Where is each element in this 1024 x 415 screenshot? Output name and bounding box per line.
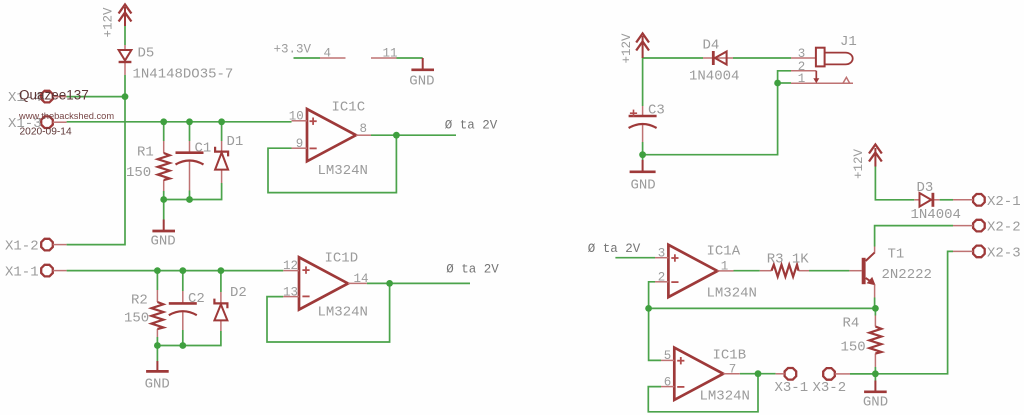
svg-text:1N4004: 1N4004	[689, 69, 739, 85]
svg-text:9: 9	[296, 137, 304, 151]
junction node C2 top	[179, 267, 186, 274]
svg-text:D5: D5	[138, 45, 155, 61]
svg-text:Ø ta 2V: Ø ta 2V	[446, 263, 499, 277]
junction node R1 top	[160, 118, 167, 125]
junction node J1 pin1/2	[774, 80, 781, 87]
wire pin 11 to GND	[397, 57, 423, 59]
wire IC1C feedback pin9	[268, 135, 396, 192]
svg-text:LM324N: LM324N	[318, 305, 368, 321]
resistor R1	[126, 141, 170, 191]
svg-text:3: 3	[658, 246, 666, 260]
svg-text:GND: GND	[631, 178, 656, 194]
svg-text:www.thebackshed.com: www.thebackshed.com	[18, 111, 114, 121]
wire stub to GND under R4	[874, 374, 876, 381]
svg-text:IC1B: IC1B	[713, 347, 747, 363]
svg-text:R2: R2	[131, 293, 148, 309]
junction node D2 top	[218, 267, 225, 274]
svg-text:LM324N: LM324N	[318, 163, 368, 179]
zener diode D2	[214, 285, 246, 331]
svg-text:C1: C1	[195, 141, 212, 157]
svg-text:R4: R4	[843, 316, 860, 332]
svg-text:IC1A: IC1A	[707, 243, 741, 259]
svg-text:12: 12	[283, 259, 298, 273]
connector pin X2-3	[953, 245, 1021, 261]
svg-text:+12V: +12V	[102, 7, 116, 38]
wire R3 to T1 base	[809, 270, 849, 272]
junction node D5/X1-4/X1-2	[122, 93, 129, 100]
net label 0 to 2V (IC1D out)	[446, 263, 499, 277]
connector J1 DC jack	[791, 34, 857, 86]
op-amp IC1C	[289, 100, 371, 180]
svg-text:IC1C: IC1C	[332, 100, 366, 116]
wire X1-1 to IC1D pin 12	[67, 270, 284, 272]
wire +12V arrow to D3	[875, 167, 914, 200]
svg-text:6: 6	[664, 375, 672, 389]
wire X3-2 to R4 node	[850, 373, 875, 375]
capacitor C2	[169, 291, 205, 330]
wire stub D2 top	[220, 271, 222, 292]
svg-text:13: 13	[283, 285, 298, 299]
wire X2-3 down to emitter rail	[875, 251, 953, 373]
junction node C1 bottom	[186, 196, 193, 203]
svg-text:D3: D3	[917, 180, 934, 196]
wire rail to IC1B pin 5	[649, 308, 661, 360]
wire IC1A out to R3	[734, 270, 760, 272]
wire X2-2 to T1 collector	[875, 226, 953, 247]
ground under R2	[145, 361, 170, 393]
op-amp IC1B	[661, 347, 750, 404]
svg-text:X3-1: X3-1	[775, 380, 809, 396]
wire stub R1 top	[163, 122, 165, 141]
wire IC1B feedback pin6	[648, 374, 758, 412]
wire bottom rail R1/C1/D1	[164, 183, 222, 200]
diode D5	[119, 45, 234, 83]
svg-text:GND: GND	[145, 377, 170, 393]
wire D4 cathode to J1 pin 3	[733, 57, 791, 59]
wire IC1A pin2 to feedback rail	[649, 282, 655, 309]
supply +12V arrow (right)	[852, 145, 882, 180]
junction node C3 bottom	[639, 151, 646, 158]
power pin 4 +3.3V	[274, 43, 346, 61]
svg-text:10: 10	[289, 110, 304, 124]
wire +3.3V to pin 4	[294, 57, 321, 59]
svg-text:150: 150	[126, 165, 151, 181]
wire stub C2 top	[182, 271, 184, 291]
junction node rail right / emitter	[872, 305, 879, 312]
svg-text:2: 2	[658, 271, 666, 285]
svg-text:GND: GND	[863, 395, 888, 411]
wire +12V to D4 and C3	[643, 58, 703, 106]
junction node IC1B out	[755, 370, 762, 377]
connector pin X2-1	[953, 194, 1021, 210]
ground at pin 11	[409, 58, 434, 90]
junction node C1 top	[186, 118, 193, 125]
svg-text:X2-2: X2-2	[987, 220, 1021, 236]
svg-text:7: 7	[729, 362, 737, 376]
svg-text:X3-2: X3-2	[813, 380, 847, 396]
svg-text:D4: D4	[703, 38, 720, 54]
resistor R3	[760, 252, 810, 277]
connector pin X3-2	[813, 368, 851, 396]
resistor R2	[124, 290, 163, 337]
watermark text www.thebackshed.com	[18, 111, 114, 121]
wire stub R2 top	[156, 271, 158, 290]
svg-text:IC1D: IC1D	[325, 250, 359, 266]
svg-text:Ø ta 2V: Ø ta 2V	[588, 242, 641, 256]
diode D3	[911, 180, 961, 223]
junction node D1 top	[218, 118, 225, 125]
power pin 11	[371, 46, 398, 60]
wire D5 cathode down to X1-2	[67, 75, 125, 245]
svg-text:1N4004: 1N4004	[911, 207, 961, 223]
junction node IC1C out	[393, 132, 400, 139]
connector pin X3-1	[775, 368, 809, 396]
wire feedback rail	[649, 307, 876, 309]
junction node R1 bottom	[160, 196, 167, 203]
svg-text:R3 1K: R3 1K	[767, 252, 810, 268]
connector pin X1-1	[5, 264, 67, 280]
ground under C3	[630, 160, 656, 194]
svg-text:11: 11	[383, 46, 398, 60]
wire IC1B output to X3-1	[740, 373, 776, 375]
svg-text:X1-1: X1-1	[5, 264, 39, 280]
svg-text:T1: T1	[888, 247, 905, 263]
junction node IC1D out	[386, 280, 393, 287]
wire J1 pin1 stub	[778, 82, 791, 84]
wire IC1D feedback pin13	[267, 283, 390, 342]
wire X1-4 to +12V/D5 node	[67, 96, 125, 98]
svg-text:1: 1	[721, 260, 729, 274]
wire stub C1 top	[189, 122, 191, 141]
connector pin X1-4	[8, 90, 67, 106]
svg-text:GND: GND	[151, 234, 176, 250]
svg-text:+3.3V: +3.3V	[274, 43, 312, 57]
supply +12V arrow (left)	[102, 5, 132, 38]
svg-text:X2-1: X2-1	[987, 194, 1021, 210]
wire stub D1 top	[221, 122, 223, 141]
wire R4 bottom stub	[874, 367, 876, 374]
svg-text:150: 150	[841, 340, 866, 356]
watermark text Quazee137	[19, 88, 89, 103]
svg-text:LM324N: LM324N	[707, 285, 757, 301]
wire C3 bottom	[642, 142, 644, 160]
svg-text:D2: D2	[230, 285, 247, 301]
svg-text:5: 5	[664, 349, 672, 363]
svg-text:2020-09-14: 2020-09-14	[20, 127, 72, 138]
ground under R4	[863, 381, 888, 411]
transistor T1 2N2222	[849, 247, 932, 298]
resistor R4	[841, 316, 882, 368]
svg-text:8: 8	[360, 122, 368, 136]
wire J1 pin2 jog down	[778, 71, 791, 83]
svg-text:150: 150	[124, 311, 149, 327]
watermark text 2020-09-14	[20, 127, 72, 138]
svg-text:R1: R1	[137, 145, 154, 161]
connector pin X2-2	[953, 220, 1021, 236]
wire bottom rail R2/C2/D2	[157, 330, 221, 346]
svg-text:Ø ta 2V: Ø ta 2V	[445, 118, 498, 132]
svg-text:1: 1	[798, 72, 806, 86]
capacitor C1	[176, 141, 212, 191]
wire IC1C output to net 0-2V	[371, 134, 456, 136]
junction node R4/X3-2/GND	[872, 370, 879, 377]
diode D4	[689, 38, 739, 85]
svg-text:J1: J1	[840, 34, 857, 50]
svg-text:D1: D1	[227, 134, 244, 150]
svg-text:LM324N: LM324N	[700, 389, 750, 405]
svg-text:X1-2: X1-2	[5, 238, 39, 254]
svg-text:4: 4	[324, 46, 332, 60]
supply +12V arrow (middle)	[620, 33, 649, 64]
polarized capacitor C3	[629, 103, 665, 143]
svg-text:GND: GND	[409, 74, 434, 90]
svg-text:14: 14	[354, 272, 369, 286]
junction node R2 top	[154, 267, 161, 274]
wire X1-3 to IC1C pin 10	[67, 121, 292, 123]
connector pin X1-3	[8, 116, 67, 132]
junction node C2 bottom	[179, 342, 186, 349]
connector pin X1-2	[5, 238, 67, 254]
wire stub to GND under R2	[156, 346, 158, 362]
svg-text:C2: C2	[188, 291, 205, 307]
svg-text:+12V: +12V	[852, 148, 866, 179]
wire stub to GND under R1	[163, 200, 165, 220]
svg-text:C3: C3	[648, 103, 665, 119]
junction node rail left	[645, 305, 652, 312]
svg-text:Quazee137: Quazee137	[19, 88, 89, 103]
svg-text:2N2222: 2N2222	[882, 267, 932, 283]
net label 0 to 2V (IC1A in)	[588, 242, 641, 256]
op-amp IC1D	[283, 250, 369, 320]
wire IC1D output to net 0-2V	[367, 282, 470, 284]
junction node R2 bottom	[154, 342, 161, 349]
ground under R1	[151, 220, 176, 250]
op-amp IC1A	[655, 243, 757, 301]
zener diode D1	[215, 134, 243, 183]
svg-text:X2-3: X2-3	[987, 245, 1021, 261]
wire net 0-2V to IC1A pin 3	[615, 257, 655, 259]
wire J1 down to C3 bottom rail	[643, 83, 778, 155]
wire R4 top stub	[874, 308, 876, 315]
wire T1 emitter down	[874, 298, 876, 309]
wire D3 to X2-1	[940, 199, 953, 201]
svg-text:+12V: +12V	[620, 33, 634, 64]
net label 0 to 2V (IC1C out)	[445, 118, 498, 132]
svg-text:1N4148DO35-7: 1N4148DO35-7	[133, 67, 234, 83]
wire +12V arrow to D5 anode	[124, 26, 126, 45]
